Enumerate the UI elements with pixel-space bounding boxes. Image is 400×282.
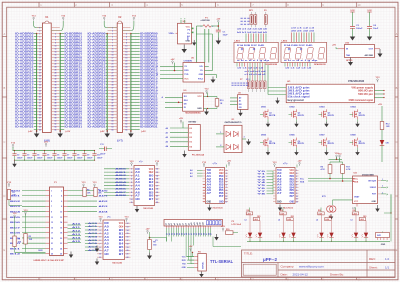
svg-text:GND: GND — [277, 201, 282, 204]
svg-text:p1: p1 — [166, 223, 168, 225]
svg-text:R3: R3 — [18, 239, 20, 241]
svg-text:43: 43 — [112, 95, 114, 98]
svg-text:7: 7 — [51, 206, 52, 208]
svg-text:74xCT2xG: 74xCT2xG — [283, 206, 294, 209]
svg-text:1: 1 — [100, 223, 101, 225]
svg-text:52: 52 — [125, 108, 127, 110]
svg-text:2021-04-12: 2021-04-12 — [293, 272, 309, 276]
svg-text:VCC: VCC — [184, 79, 189, 81]
svg-text:VDD+: VDD+ — [169, 33, 176, 35]
svg-text:22: 22 — [125, 63, 127, 65]
svg-text:37: 37 — [112, 87, 114, 89]
svg-text:p13: p13 — [200, 222, 202, 225]
svg-text:3: 3 — [112, 36, 113, 38]
svg-text:1: 1 — [382, 179, 383, 181]
svg-text:53: 53 — [112, 111, 114, 113]
svg-text:6: 6 — [61, 201, 62, 203]
svg-text:25: 25 — [112, 69, 114, 71]
svg-text:GPPIO: GPPIO — [346, 60, 353, 62]
svg-text:41: 41 — [39, 92, 41, 95]
svg-text:A: A — [396, 32, 398, 36]
svg-text:4: 4 — [126, 35, 127, 38]
svg-text:14: 14 — [125, 50, 127, 53]
svg-text:26: 26 — [125, 69, 127, 71]
svg-text:59: 59 — [39, 120, 41, 122]
svg-text:21: 21 — [51, 243, 53, 245]
svg-text:42: 42 — [125, 92, 127, 95]
svg-text:13: 13 — [51, 222, 53, 224]
svg-text:(+5V: (+5V — [100, 131, 105, 133]
svg-text:(k: (k — [387, 194, 389, 196]
svg-text:key:ground: key:ground — [288, 99, 305, 102]
svg-text:LED2: LED2 — [282, 40, 288, 42]
svg-text:1: 1 — [296, 170, 297, 172]
svg-text:C5: C5 — [47, 154, 49, 156]
svg-text:VCC: VCC — [186, 26, 191, 28]
svg-text:34: 34 — [125, 80, 127, 83]
svg-text:9: 9 — [131, 195, 132, 197]
svg-text:7: 7 — [39, 42, 40, 44]
svg-text:12: 12 — [127, 223, 129, 225]
svg-text:(+5V: (+5V — [28, 131, 33, 133]
svg-text:11: 11 — [39, 48, 41, 50]
svg-text:1: 1 — [112, 33, 113, 35]
svg-text:C8: C8 — [77, 154, 79, 156]
svg-text:60: 60 — [125, 120, 127, 122]
svg-text:27: 27 — [39, 72, 41, 74]
svg-text:20: 20 — [127, 250, 129, 252]
svg-text:VCC: VCC — [119, 223, 124, 225]
svg-text:+GMC058: +GMC058 — [200, 20, 210, 22]
svg-text:47: 47 — [112, 101, 114, 104]
svg-text:48: 48 — [54, 101, 56, 104]
svg-text:46: 46 — [125, 98, 127, 101]
svg-text:6: 6 — [226, 184, 227, 186]
svg-text:2: 2 — [382, 186, 383, 188]
svg-text:5: 5 — [296, 182, 297, 184]
svg-text:23: 23 — [112, 66, 114, 68]
svg-text:9: 9 — [51, 211, 52, 213]
svg-text:900:I/O pin: 900:I/O pin — [358, 91, 374, 93]
svg-text:47: 47 — [39, 101, 41, 104]
svg-text:18: 18 — [125, 57, 127, 59]
svg-text:R1: R1 — [12, 192, 14, 194]
svg-text:17: 17 — [39, 57, 41, 59]
svg-text:50: 50 — [125, 105, 127, 107]
svg-text:49: 49 — [39, 104, 41, 107]
svg-text:500:I/O pin: 500:I/O pin — [358, 94, 374, 96]
svg-text:Drawn By:: Drawn By: — [330, 272, 344, 276]
svg-text:44: 44 — [125, 95, 127, 98]
svg-text:D: D — [3, 194, 5, 198]
svg-text:5: 5 — [226, 182, 227, 184]
svg-text:V60:power supply: V60:power supply — [351, 87, 373, 89]
svg-text:64: 64 — [125, 125, 127, 128]
svg-text:p14: p14 — [202, 222, 205, 225]
svg-text:4.7K: 4.7K — [346, 168, 351, 171]
svg-text:1: 1 — [131, 169, 132, 171]
svg-text:64: 64 — [54, 125, 56, 128]
svg-text:C9: C9 — [87, 154, 89, 156]
svg-text:32: 32 — [125, 78, 127, 80]
svg-text:54: 54 — [54, 110, 56, 113]
svg-text:DN06: DN06 — [290, 135, 296, 137]
svg-text:15: 15 — [127, 233, 129, 235]
svg-text:7: 7 — [100, 243, 101, 245]
svg-text:2: 2 — [296, 173, 297, 175]
svg-text:10: 10 — [60, 211, 62, 213]
svg-text:TXD: TXD — [184, 74, 189, 76]
svg-text:6: 6 — [296, 184, 297, 186]
svg-text:DN04: DN04 — [351, 105, 357, 108]
svg-text:3: 3 — [131, 175, 132, 177]
svg-text:55: 55 — [39, 114, 41, 116]
svg-text:p3: p3 — [171, 223, 173, 225]
svg-text:16: 16 — [125, 54, 127, 56]
svg-text:3: 3 — [100, 230, 101, 232]
svg-text:54: 54 — [125, 110, 127, 113]
svg-text:63: 63 — [39, 126, 41, 128]
svg-text:4: 4 — [131, 178, 132, 181]
svg-text:E: E — [4, 248, 6, 252]
svg-text:D1A D2B D3C D4D: D1A D2B D3C D4D — [284, 44, 313, 47]
svg-text:59: 59 — [112, 120, 114, 122]
svg-text:CR1: CR1 — [386, 143, 390, 145]
svg-text:74xCT2xG: 74xCT2xG — [212, 206, 223, 209]
svg-text:RXD: RXD — [184, 70, 189, 72]
svg-text:22: 22 — [54, 63, 56, 65]
svg-text:6: 6 — [126, 39, 127, 41]
svg-text:Sheet:: Sheet: — [369, 266, 378, 270]
svg-text:4: 4 — [55, 35, 56, 38]
svg-text:p6: p6 — [180, 223, 182, 225]
svg-text:p8: p8 — [185, 223, 187, 225]
svg-text:62: 62 — [125, 123, 127, 125]
svg-text:33: 33 — [39, 81, 41, 83]
svg-text:100nF: 100nF — [37, 157, 43, 159]
svg-text:11: 11 — [296, 199, 298, 201]
svg-text:OE#: OE# — [149, 172, 154, 174]
svg-text:DN08: DN08 — [351, 135, 357, 137]
svg-text:3: 3 — [226, 176, 227, 178]
svg-text:GND: GND — [372, 201, 377, 203]
svg-text:1.0: 1.0 — [385, 257, 390, 261]
svg-text:56: 56 — [54, 114, 56, 116]
svg-text:b0 b1 b2 b3 b4 b5: b0 b1 b2 b3 b4 b5 — [237, 31, 268, 34]
svg-text:E: E — [396, 248, 398, 252]
svg-text:5: 5 — [51, 201, 52, 203]
svg-text:8: 8 — [131, 192, 132, 194]
svg-text:32KHZ: 32KHZ — [370, 187, 377, 189]
svg-text:L404: L404 — [287, 218, 291, 221]
svg-text:10uF: 10uF — [223, 34, 229, 36]
svg-text:15: 15 — [112, 54, 114, 56]
svg-text:10: 10 — [131, 199, 133, 201]
svg-text:2: 2 — [131, 172, 132, 174]
svg-text:p4: p4 — [173, 223, 176, 225]
svg-text:KEYBD: KEYBD — [189, 122, 197, 124]
svg-text:100nF: 100nF — [97, 157, 103, 159]
svg-text:1: 1 — [39, 27, 40, 29]
svg-text:50: 50 — [54, 105, 56, 107]
svg-text:BD17B: BD17B — [298, 143, 305, 145]
svg-text:GND: GND — [135, 199, 140, 201]
svg-text:L404: L404 — [254, 218, 258, 221]
svg-text:7: 7 — [131, 189, 132, 191]
svg-text:19: 19 — [112, 60, 114, 62]
svg-text:8: 8 — [226, 190, 227, 192]
svg-text:10: 10 — [296, 196, 298, 198]
svg-text:17: 17 — [112, 57, 114, 59]
svg-text:R2: R2 — [29, 236, 31, 238]
svg-text:51: 51 — [39, 108, 41, 110]
svg-text:51k:clock signal: 51k:clock signal — [288, 95, 310, 98]
svg-text:a b c d e f g dp: a b c d e f g dp — [237, 60, 271, 62]
svg-text:11: 11 — [51, 217, 53, 219]
svg-text:14: 14 — [127, 229, 129, 232]
svg-text:3: 3 — [39, 36, 40, 38]
svg-text:63: 63 — [112, 126, 114, 128]
svg-text:OE#: OE# — [119, 227, 124, 229]
svg-text:C3: C3 — [27, 154, 29, 156]
svg-text:C7: C7 — [67, 154, 69, 156]
svg-text:5: 5 — [112, 39, 113, 41]
svg-text:36: 36 — [125, 84, 127, 86]
svg-text:K3: K3 — [190, 142, 192, 144]
svg-text:100nF: 100nF — [27, 157, 33, 159]
svg-text:UD-: UD- — [199, 66, 203, 68]
svg-text:c0 c1 c2 c3: c0 c1 c2 c3 — [291, 27, 316, 29]
svg-text:IO-BDDR31: IO-BDDR31 — [140, 126, 158, 129]
svg-text:9: 9 — [296, 193, 297, 195]
svg-text:31: 31 — [112, 78, 114, 80]
svg-text:16: 16 — [54, 54, 56, 56]
svg-text:1: 1 — [39, 33, 40, 35]
svg-text:INT#QW: INT#QW — [368, 181, 376, 183]
svg-text:L4: L4 — [245, 218, 247, 221]
svg-text:52: 52 — [54, 108, 56, 110]
svg-text:BD17B: BD17B — [298, 115, 305, 117]
svg-text:26: 26 — [54, 69, 56, 71]
svg-text:(U-T): (U-T) — [117, 140, 123, 143]
svg-text:100nF: 100nF — [356, 28, 363, 30]
svg-text:62: 62 — [54, 123, 56, 125]
svg-text:36: 36 — [54, 84, 56, 86]
svg-text:L4: L4 — [316, 218, 318, 221]
svg-text:61: 61 — [39, 123, 41, 125]
svg-text:VCC: VCC — [182, 256, 187, 258]
svg-text:R19: R19 — [226, 229, 229, 231]
svg-text:15: 15 — [51, 227, 53, 229]
svg-text:65: 65 — [112, 129, 114, 131]
svg-text:L404: L404 — [325, 218, 329, 221]
svg-text:(+5V: (+5V — [66, 131, 71, 133]
svg-text:10uF: 10uF — [373, 28, 379, 30]
svg-text:1: 1 — [226, 170, 227, 172]
svg-text:9: 9 — [112, 45, 113, 47]
svg-text:GND: GND — [290, 201, 295, 204]
svg-text:1: 1 — [112, 27, 113, 29]
svg-text:8: 8 — [55, 42, 56, 44]
svg-text:100nF: 100nF — [57, 157, 63, 159]
svg-text:26: 26 — [60, 254, 62, 256]
svg-text:SERIAL: SERIAL — [202, 261, 205, 269]
svg-text:p10: p10 — [191, 222, 193, 225]
svg-text:GND: GND — [182, 267, 187, 269]
svg-text:p12: p12 — [197, 222, 199, 225]
svg-text:100nF: 100nF — [77, 157, 83, 159]
svg-text:25: 25 — [39, 69, 41, 71]
svg-text:46: 46 — [54, 98, 56, 101]
svg-text:K1: K1 — [190, 133, 192, 135]
svg-text:65: 65 — [39, 129, 41, 131]
svg-text:5: 5 — [39, 39, 40, 41]
svg-text:<**>: <**> — [283, 162, 288, 165]
svg-text:42: 42 — [54, 92, 56, 95]
svg-text:D1A D2B D3C D4D: D1A D2B D3C D4D — [237, 44, 265, 47]
svg-text:C: C — [3, 140, 5, 144]
svg-text:10: 10 — [54, 45, 56, 47]
svg-text:4: 4 — [100, 232, 101, 235]
svg-text:66: 66 — [125, 129, 127, 131]
svg-text:V13: V13 — [246, 79, 249, 81]
svg-text:53: 53 — [39, 111, 41, 113]
svg-text:38: 38 — [54, 87, 56, 89]
svg-text:MAX3485MESA: MAX3485MESA — [185, 112, 201, 115]
svg-text:15: 15 — [39, 54, 41, 56]
svg-text:45: 45 — [39, 98, 41, 101]
svg-text:35: 35 — [112, 84, 114, 86]
svg-text:DN03: DN03 — [320, 106, 326, 108]
svg-text:39: 39 — [39, 90, 41, 92]
svg-text:4: 4 — [296, 178, 297, 181]
svg-text:12: 12 — [296, 201, 298, 203]
svg-text:51: 51 — [112, 108, 114, 110]
svg-text:2: 2 — [61, 190, 62, 192]
svg-text:s0 s1 s2 s3 s4: s0 s1 s2 s3 s4 — [285, 67, 313, 70]
svg-text:7: 7 — [112, 42, 113, 44]
svg-text:2: 2 — [226, 173, 227, 175]
svg-text:6: 6 — [131, 185, 132, 187]
svg-text:13: 13 — [127, 226, 129, 228]
svg-text:XT021/OLD643: XT021/OLD643 — [348, 80, 365, 83]
svg-text:28: 28 — [54, 72, 56, 74]
svg-text:DN07: DN07 — [320, 135, 326, 137]
svg-text:L4: L4 — [278, 218, 280, 221]
svg-text:34: 34 — [54, 80, 56, 83]
svg-text:8: 8 — [296, 190, 297, 192]
svg-text:37: 37 — [39, 87, 41, 89]
svg-text:HDR-IDC-2.54-2X13P: HDR-IDC-2.54-2X13P — [34, 259, 65, 262]
svg-text:9: 9 — [39, 45, 40, 47]
svg-text:100nF: 100nF — [87, 157, 93, 159]
svg-text:VCC: VCC — [197, 96, 202, 98]
svg-text:23: 23 — [39, 66, 41, 68]
svg-text:9: 9 — [226, 193, 227, 195]
svg-text:22: 22 — [156, 202, 158, 204]
svg-text:REV:: REV: — [369, 257, 376, 261]
svg-text:RO: RO — [184, 96, 188, 98]
svg-text:22: 22 — [60, 243, 62, 245]
svg-text:K2: K2 — [190, 137, 192, 139]
svg-text:22: 22 — [127, 257, 129, 259]
svg-text:SDA: SDA — [354, 181, 359, 184]
svg-text:1: 1 — [51, 190, 52, 192]
svg-text:21: 21 — [112, 63, 114, 65]
svg-text:CMD:command signal: CMD:command signal — [349, 100, 374, 102]
svg-text:35: 35 — [39, 84, 41, 86]
svg-text:11: 11 — [225, 199, 227, 201]
svg-text:20: 20 — [60, 238, 62, 240]
svg-text:BD17B: BD17B — [269, 143, 276, 145]
svg-text:56: 56 — [125, 114, 127, 116]
svg-text:DIR: DIR — [135, 169, 140, 171]
svg-text:GMT4243HTG: GMT4243HTG — [225, 121, 243, 124]
svg-text:18: 18 — [127, 243, 129, 245]
svg-text:9: 9 — [100, 250, 101, 252]
svg-text:2: 2 — [100, 226, 101, 228]
svg-text:K0: K0 — [190, 128, 192, 130]
svg-text:100R: 100R — [38, 250, 43, 252]
svg-text:44: 44 — [54, 95, 56, 98]
svg-text:10R: 10R — [386, 126, 390, 128]
svg-text:40: 40 — [125, 89, 127, 92]
svg-text:32: 32 — [54, 78, 56, 80]
svg-text:29: 29 — [112, 75, 114, 77]
svg-text:7: 7 — [296, 187, 297, 189]
svg-text:DIR: DIR — [104, 223, 109, 225]
svg-text:Date:: Date: — [281, 272, 288, 276]
svg-text:a b c d e f g dp: a b c d e f g dp — [284, 60, 319, 62]
svg-text:25: 25 — [51, 254, 53, 256]
svg-text:20: 20 — [54, 60, 56, 62]
svg-text:57: 57 — [112, 117, 114, 119]
svg-text:www.sillycony.com: www.sillycony.com — [299, 265, 324, 269]
svg-text:GND: GND — [381, 244, 386, 246]
svg-text:8: 8 — [100, 247, 101, 249]
svg-text:14: 14 — [54, 50, 56, 53]
svg-text:12: 12 — [156, 169, 158, 171]
svg-text:(+5V: (+5V — [141, 131, 146, 133]
svg-text:BD17B: BD17B — [359, 143, 366, 145]
svg-text:20: 20 — [156, 195, 158, 197]
svg-text:18: 18 — [54, 57, 56, 59]
svg-text:C2: C2 — [17, 154, 19, 156]
svg-text:3: 3 — [382, 192, 383, 194]
svg-text:2: 2 — [39, 30, 40, 32]
svg-text:6: 6 — [100, 240, 101, 242]
svg-text:1O-: 1O- — [200, 70, 204, 72]
svg-text:B: B — [4, 86, 6, 90]
svg-text:GND: GND — [104, 254, 109, 256]
svg-text:100nF: 100nF — [100, 154, 106, 156]
svg-text:100nF: 100nF — [47, 157, 53, 159]
svg-text:4: 4 — [226, 178, 227, 181]
svg-text:11: 11 — [131, 202, 133, 204]
svg-text:13: 13 — [156, 172, 158, 174]
svg-text:21: 21 — [127, 254, 129, 256]
svg-text:20: 20 — [125, 60, 127, 62]
svg-text:24: 24 — [125, 65, 127, 68]
svg-text:11: 11 — [112, 48, 114, 50]
svg-text:5: 5 — [100, 237, 101, 239]
svg-text:55: 55 — [112, 114, 114, 116]
svg-text:40: 40 — [54, 89, 56, 92]
svg-text:VBAT: VBAT — [354, 195, 360, 198]
svg-text:100nF: 100nF — [67, 157, 73, 159]
svg-text:2: 2 — [126, 33, 127, 35]
svg-text:19: 19 — [156, 192, 158, 194]
